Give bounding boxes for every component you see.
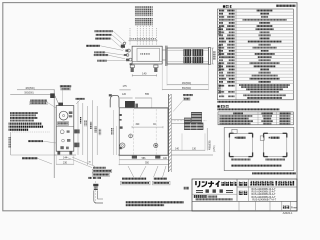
front view lower section details <box>60 129 79 149</box>
front view right side dimension lines (545/600/700) <box>78 100 101 165</box>
wall line (front view, left) <box>53 89 55 178</box>
side view lower fitting circles <box>120 143 158 148</box>
logo second row (outline drawing marks) <box>196 189 233 192</box>
front view attachment callouts (left) <box>29 99 56 108</box>
footnote lines bottom centre <box>126 201 184 206</box>
sheet note left of title block <box>184 187 190 190</box>
top view duct end cap <box>208 47 210 64</box>
front view bottom dimensions 144 / 230 <box>56 156 74 165</box>
svg-text:555: 555 <box>145 93 150 96</box>
svg-text:A2022-1: A2022-1 <box>283 211 293 215</box>
outer frame border <box>3 3 297 211</box>
title block bottom row cells <box>239 201 297 211</box>
side view outside vent cap (louvered stack) <box>184 112 203 129</box>
svg-text:175: 175 <box>123 85 128 88</box>
top view pitch dimension line <box>129 38 158 41</box>
dimension 480(500)/580(500) left above front view <box>10 88 54 95</box>
front view fan circle <box>59 111 72 120</box>
label exhaust sleeve hole (bottom) <box>121 178 151 185</box>
spec table grid <box>217 9 293 100</box>
top view connection labels (vertical text stack) <box>135 6 153 25</box>
spec table header: spec title and unit mm <box>223 5 296 8</box>
title block outline <box>192 179 297 211</box>
top view feet with anchor bolts <box>130 65 158 72</box>
label onsuiki lower (left) <box>28 140 56 143</box>
side view left edge dim marks <box>111 110 122 155</box>
label circulation hole (bottom) <box>153 178 171 185</box>
dimension 480(500)/580(500) right of top view <box>162 64 208 90</box>
logo Rinnai katakana (bold) <box>195 181 219 187</box>
side view mounting bolt symbol <box>129 134 133 138</box>
top view left fittings (water/gas connections) <box>121 42 132 65</box>
wall hole note <box>231 165 282 167</box>
left right markers <box>88 177 101 179</box>
label RBA small (right of front view top) <box>76 98 85 104</box>
svg-text:144: 144 <box>63 157 68 160</box>
leader lines to bottom hole labels <box>128 166 166 177</box>
dimension phi5+130 above front view <box>60 85 71 105</box>
side view internal dimensions 320 / 94 <box>132 124 163 128</box>
top view leader lines (dashed, from labels to body) <box>130 26 157 46</box>
top view duct louver grille <box>184 49 203 63</box>
wall hole square B (circulation) <box>260 133 287 158</box>
front view body outline <box>56 106 74 152</box>
company name and address <box>194 195 233 201</box>
front view feet <box>54 151 76 155</box>
dimension 120 / 555 above side view <box>120 93 152 107</box>
svg-text:RUS-A2400WB-13-A-T: RUS-A2400WB-13-A-T <box>252 188 277 191</box>
duct diameter dimension (vertical, right of duct) <box>211 48 215 64</box>
height dimension 400 (far left) <box>9 132 57 155</box>
svg-text:(1150): (1150) <box>214 145 216 152</box>
notes list (left, bold 3 rows) <box>9 123 44 131</box>
name cell: meisho label and drawing title <box>238 181 294 186</box>
accessory table <box>218 112 293 125</box>
wall hole square A (exhaust sleeve) <box>229 129 254 157</box>
side view body outline <box>119 108 168 156</box>
side view feet <box>132 155 161 158</box>
dimension 175 above side view left <box>119 85 130 90</box>
floor line under side view <box>118 154 213 156</box>
drain connection label block (below front view) <box>92 167 112 176</box>
side view duct pipe through wall <box>167 119 207 123</box>
wall hole square labels <box>231 159 285 161</box>
side view bottom dimensions 586/100 and 550 <box>119 156 170 165</box>
top view body (gas water heater, plan) <box>132 46 162 64</box>
top view labels left (greeked callouts) <box>86 30 113 61</box>
front view controls band <box>56 122 74 127</box>
wall hole detail box <box>224 127 294 170</box>
svg-text:RUS-A2406WB-7?-A-T: RUS-A2406WB-7?-A-T <box>252 199 276 202</box>
dimension 140/130 under vent grille <box>171 133 205 150</box>
drain label leaders <box>66 157 95 168</box>
side view damper unit on top <box>125 101 138 107</box>
dimension 140 (feet pitch) <box>132 72 156 77</box>
svg-text:RUS-A2400WB-23-A-T: RUS-A2400WB-23-A-T <box>252 196 277 199</box>
svg-text:120: 120 <box>122 93 127 96</box>
dimension 30 under front view right <box>88 162 91 164</box>
model cell: hinmei label and model codes <box>238 188 276 202</box>
svg-text:RUS-A2400WB-23-A-T: RUS-A2400WB-23-A-T <box>252 193 277 196</box>
svg-text:RUS-A2400WB-13-A-T: RUS-A2400WB-13-A-T <box>252 191 277 194</box>
dimension 485(505) rotated (right of side view) <box>207 128 216 152</box>
label exhaust top (90A) right of wall <box>173 94 193 111</box>
svg-text:Free: Free <box>291 206 297 210</box>
document number below frame <box>283 211 293 215</box>
note below spec table <box>217 101 259 103</box>
drain pipe detail (bottom centre-left) <box>93 181 103 204</box>
logo subtitle (housing equipment) <box>221 182 236 186</box>
top view wall duct (pipe through wall) <box>167 48 208 64</box>
svg-text:230: 230 <box>63 161 68 164</box>
notice header and note line <box>217 105 279 110</box>
label drain valve (left bottom) <box>22 157 52 164</box>
approval note (right, above title block) <box>252 172 296 174</box>
front view top fitting (exhaust) <box>50 93 63 105</box>
spec table group labels (vertical) <box>218 27 221 94</box>
spec table cell text (greeked) <box>219 10 290 99</box>
svg-text:140: 140 <box>142 72 147 76</box>
svg-text:485(505): 485(505) <box>209 140 212 150</box>
notes list (left, small 4 rows) <box>10 112 38 121</box>
top view callout leader lines <box>100 31 127 60</box>
top view flange at wall <box>162 46 167 66</box>
side view exhaust elbow (gooseneck pipe) <box>109 94 119 107</box>
wall section (side view, hatched) <box>169 94 172 172</box>
